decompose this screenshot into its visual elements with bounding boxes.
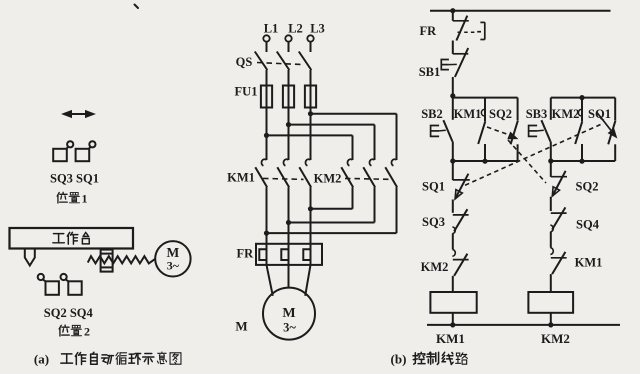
svg-text:QS: QS: [236, 55, 253, 69]
svg-text:SQ1: SQ1: [588, 107, 611, 121]
svg-text:L3: L3: [310, 22, 325, 36]
svg-text:(a): (a): [34, 352, 49, 367]
svg-text:KM2: KM2: [552, 107, 580, 121]
svg-text:SQ2 SQ4: SQ2 SQ4: [44, 306, 94, 320]
svg-text:M: M: [282, 306, 295, 321]
svg-text:KM2: KM2: [421, 260, 449, 274]
svg-text:KM2: KM2: [541, 331, 570, 346]
svg-text:3~: 3~: [283, 321, 296, 335]
svg-text:SB3: SB3: [526, 107, 548, 121]
svg-text:KM1: KM1: [227, 171, 255, 185]
svg-text:SQ2: SQ2: [576, 180, 599, 194]
svg-text:SQ4: SQ4: [576, 218, 600, 232]
svg-text:FR: FR: [419, 24, 437, 38]
svg-text:3~: 3~: [167, 259, 180, 273]
svg-text:KM2: KM2: [314, 172, 342, 186]
svg-text:M: M: [235, 319, 247, 334]
svg-text:KM1: KM1: [575, 256, 603, 270]
svg-text:KM1: KM1: [454, 107, 482, 121]
svg-text:FR: FR: [236, 247, 254, 261]
svg-text:SQ1: SQ1: [422, 180, 445, 194]
svg-text:KM1: KM1: [436, 331, 465, 346]
svg-text:(b): (b): [391, 352, 407, 367]
svg-text:SQ3: SQ3: [422, 215, 445, 229]
svg-text:SQ2: SQ2: [489, 107, 512, 121]
svg-text:L1: L1: [264, 22, 279, 36]
svg-text:FU1: FU1: [235, 85, 258, 99]
svg-text:SB2: SB2: [421, 107, 443, 121]
svg-text:2: 2: [84, 325, 90, 339]
svg-text:L2: L2: [288, 22, 303, 36]
svg-text:1: 1: [82, 192, 88, 206]
svg-text:SQ3 SQ1: SQ3 SQ1: [50, 172, 99, 186]
svg-text:SB1: SB1: [419, 65, 441, 79]
